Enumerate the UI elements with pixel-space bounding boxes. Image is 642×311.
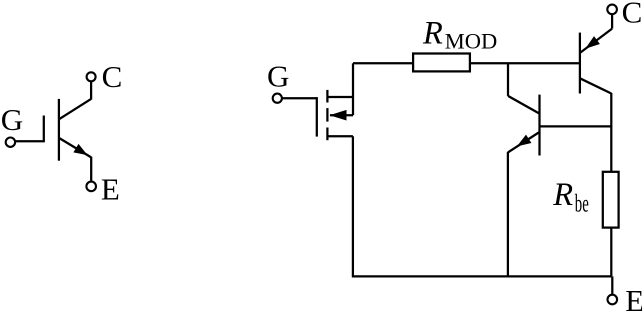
resistor R_be [603,172,619,228]
transistor Q2 emitter vertical wire [507,152,509,276]
svg-text:R: R [552,177,573,213]
emitter terminal circle E [608,295,618,305]
svg-text:MOD: MOD [445,28,498,53]
collector terminal circle C [607,5,617,15]
svg-text:R: R [422,15,443,51]
svg-text:G: G [1,102,23,137]
gate wire [282,97,317,99]
R_be bottom wire [610,228,612,277]
MOSFET M1 drain contact [326,90,328,103]
collector vertical wire [90,82,92,100]
source stub wire [327,135,353,137]
transistor Q2 emitter diagonal wire [508,132,540,152]
emitter diagonal wire [59,138,91,158]
MOSFET M1 body contact [326,108,328,122]
gate terminal circle [6,138,15,147]
transistor Q1 emitter wire from node C [611,14,613,28]
svg-text:G: G [267,59,289,94]
MOSFET M1 source contact [326,128,328,141]
svg-text:C: C [622,0,642,30]
drain vertical wire to top rail [352,63,354,115]
gate bar [43,116,45,143]
gate terminal circle [273,94,282,103]
emitter terminal circle [86,182,96,192]
gate wire [15,140,44,142]
emitter arrowhead [73,144,87,155]
transistor Q1 emitter arrowhead [585,36,600,49]
rail-drop wire at node A [507,63,509,96]
svg-text:E: E [101,172,120,207]
transistor Q2 base wire [540,125,612,127]
transistor Q1 collector diagonal wire [580,78,611,93]
transistor Q1 collector vertical wire [610,93,612,172]
transistor Q2 (NPN) base bar [538,95,540,156]
body wire with arrow [330,114,353,116]
MOSFET M1 gate bar [316,97,318,137]
collector terminal circle [87,72,96,81]
top rail wire [353,62,580,64]
source vertical, bottom rail [353,136,611,276]
emitter stub below rail [611,276,613,294]
svg-text:be: be [575,189,589,218]
drain stub wire [327,96,353,98]
transistor Q2 emitter arrowhead [517,135,532,147]
MOSFET M1 body arrowhead [330,110,347,121]
transistor Q1 (PNP) base bar [579,33,581,94]
body bar [58,99,60,161]
resistor R_MOD [413,54,470,72]
svg-text:C: C [102,59,123,94]
svg-text:E: E [625,283,642,311]
transistor Q2 collector diagonal wire [508,96,540,114]
transistor Q1 emitter diagonal wire [580,29,612,53]
collector diagonal wire [59,99,91,119]
emitter vertical wire [90,157,92,181]
